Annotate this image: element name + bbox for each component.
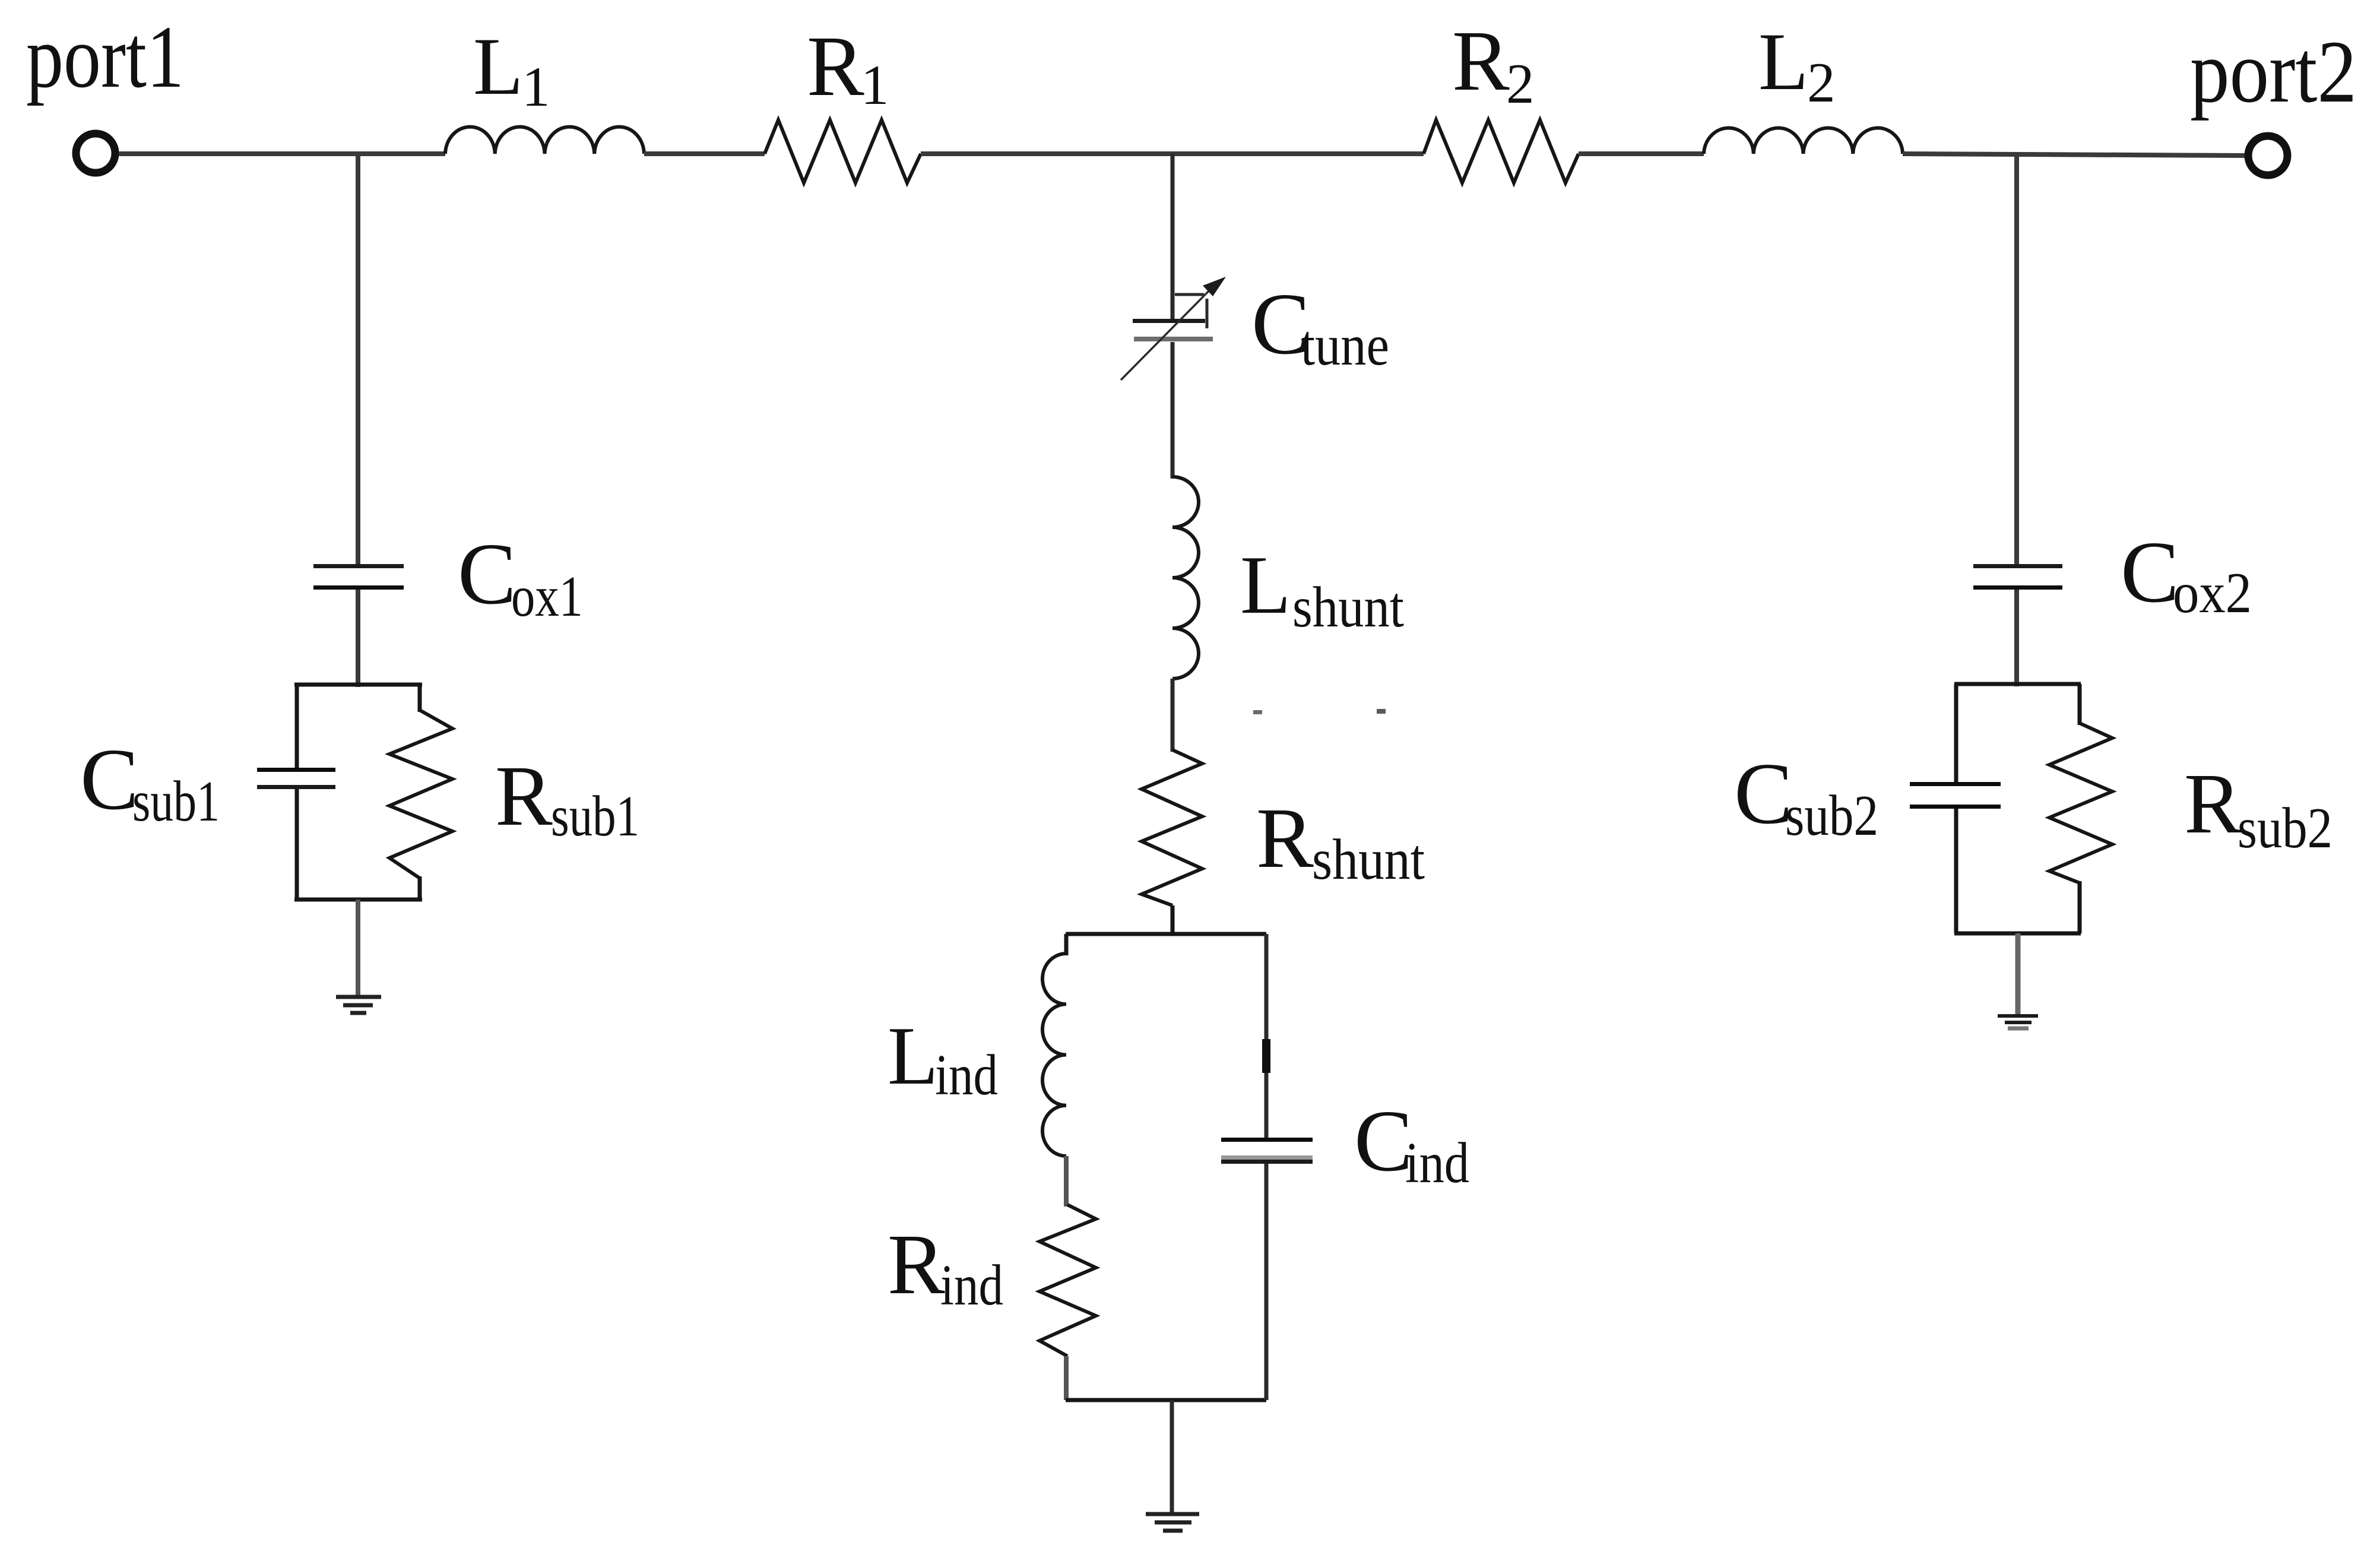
resistor Rshunt — [1142, 750, 1202, 905]
resistor Rsub1 — [389, 710, 452, 878]
wire right leg of box 2 (upper stub) — [2078, 684, 2082, 725]
inductor L2 — [1704, 128, 1903, 154]
svg-text:C: C — [2121, 524, 2179, 621]
capacitor Cox2 — [1973, 564, 2062, 590]
port2 terminal — [2248, 136, 2287, 175]
inductor L1 — [445, 127, 644, 154]
wire R1 to R2 through center junction — [921, 151, 1424, 156]
inductor Lind — [1042, 954, 1066, 1156]
stray mark right of Rshunt — [1377, 709, 1386, 714]
wire Cox2 to substrate box 2 — [2014, 590, 2019, 686]
wire tank left leg upper stub — [1064, 934, 1069, 955]
inductor Lshunt — [1172, 477, 1199, 679]
wire Cox1 to substrate box 1 — [356, 590, 360, 687]
wire left leg of box 2 (upper) — [1954, 684, 1958, 784]
svg-text:1: 1 — [522, 55, 550, 118]
svg-text:C: C — [1354, 1092, 1413, 1190]
wire tank right leg lower — [1265, 1164, 1269, 1400]
svg-text:port2: port2 — [2190, 23, 2357, 121]
wire left leg of box 1 (upper) — [295, 685, 299, 770]
wire R2 to L2 — [1579, 151, 1704, 156]
svg-text:sub2: sub2 — [2238, 796, 2333, 860]
svg-text:R: R — [807, 19, 864, 114]
wire right leg of box 2 (lower stub) — [2078, 881, 2082, 933]
svg-text:C: C — [1734, 745, 1793, 843]
svg-text:sub1: sub1 — [551, 784, 639, 848]
capacitor Cind — [1221, 1138, 1313, 1164]
resistor Rsub2 — [2049, 723, 2112, 883]
svg-text:R: R — [888, 1217, 945, 1312]
svg-text:sub1: sub1 — [132, 769, 220, 833]
ground (left) — [336, 997, 381, 1013]
svg-text:ind: ind — [940, 1253, 1003, 1317]
substrate network box 2 top wire — [1954, 682, 2081, 686]
svg-text:shunt: shunt — [1312, 828, 1425, 891]
svg-text:L: L — [1240, 539, 1291, 631]
svg-text:2: 2 — [1807, 51, 1836, 114]
svg-text:R: R — [1452, 14, 1510, 109]
stray mark left of Rshunt — [1253, 710, 1262, 714]
svg-text:R: R — [2184, 756, 2242, 851]
substrate network box 2 bottom wire — [1954, 932, 2081, 936]
svg-text:R: R — [1256, 791, 1314, 886]
ground (right) — [1998, 1016, 2038, 1028]
capacitor Csub2 — [1910, 782, 2001, 809]
svg-text:L: L — [888, 1010, 939, 1102]
tank box top wire — [1066, 932, 1266, 936]
wire port1 to L1 — [119, 151, 445, 156]
node C: right junction vertical wire down to Cox2 — [2014, 156, 2019, 565]
wire left leg of box 2 (lower) — [1954, 809, 1958, 933]
substrate network box 1 bottom wire — [294, 898, 422, 902]
capacitor Csub1 — [257, 768, 335, 789]
capacitor Cox1 — [313, 564, 404, 590]
wire tank right leg upper — [1265, 934, 1269, 1139]
svg-text:port1: port1 — [26, 8, 184, 106]
svg-text:R: R — [495, 749, 553, 844]
svg-text:ind: ind — [935, 1043, 998, 1107]
substrate network box 1 top wire — [294, 683, 422, 687]
svg-text:ind: ind — [1405, 1131, 1469, 1195]
wire right leg of box 1 (lower stub) — [418, 876, 422, 900]
wire right leg of box 1 (upper stub) — [418, 685, 422, 712]
wire L1 to R1 — [644, 151, 765, 156]
svg-text:shunt: shunt — [1292, 575, 1404, 639]
svg-text:2: 2 — [1506, 52, 1535, 115]
port1 terminal — [76, 134, 115, 173]
wire box 1 to ground — [356, 900, 360, 996]
wire Lind to Rind — [1064, 1156, 1069, 1206]
resistor Rind — [1040, 1205, 1096, 1356]
node B: center junction vertical wire down to Ctune — [1171, 154, 1175, 322]
ground (bottom center) — [1146, 1514, 1199, 1531]
wire Ctune to Lshunt — [1171, 342, 1175, 479]
svg-text:ox1: ox1 — [511, 565, 583, 628]
wire left leg of box 1 (lower) — [295, 789, 299, 900]
svg-text:sub2: sub2 — [1785, 784, 1878, 847]
wire Rind to tank bottom — [1064, 1356, 1069, 1400]
wire L2 to port2 — [1903, 154, 2248, 156]
variable capacitor Ctune — [1121, 277, 1226, 380]
resistor R1 — [765, 120, 921, 183]
svg-text:1: 1 — [861, 53, 889, 116]
wire Rshunt to tank box — [1171, 905, 1175, 936]
resistor R2 — [1424, 120, 1579, 183]
junction dash on Cind branch — [1262, 1039, 1270, 1073]
tank box bottom wire — [1066, 1398, 1266, 1402]
wire tank box to ground — [1170, 1400, 1174, 1513]
svg-text:C: C — [80, 731, 139, 828]
svg-text:tune: tune — [1301, 313, 1389, 377]
node A: left junction vertical wire down to Cox1 — [356, 154, 360, 565]
svg-text:ox2: ox2 — [2173, 561, 2252, 625]
svg-text:C: C — [458, 525, 516, 623]
wire box 2 to ground — [2015, 933, 2021, 1015]
svg-text:L: L — [473, 21, 523, 112]
wire Lshunt to Rshunt — [1171, 679, 1175, 752]
svg-text:L: L — [1758, 16, 1808, 107]
